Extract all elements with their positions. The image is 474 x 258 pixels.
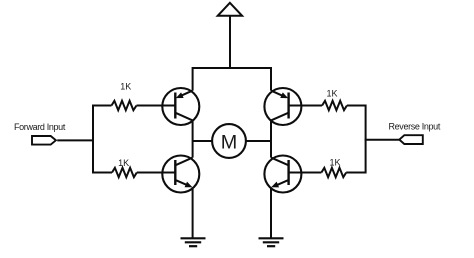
wire: motor to right leg (246, 140, 271, 142)
wire: Q4 emitter to ground (270, 187, 272, 238)
resistor R3 (1K, top-right) (322, 101, 347, 110)
svg-text:1K: 1K (118, 158, 129, 168)
wire: R1 to Q1 base (137, 105, 176, 107)
resistor R1 (1K, top-left) (112, 101, 137, 110)
transistor Q4 (NPN, bottom-right) (264, 156, 301, 193)
svg-text:1K: 1K (326, 88, 337, 98)
wire: R2 to Q2 base (137, 172, 176, 174)
svg-text:1K: 1K (329, 158, 340, 168)
wire: right node to Reverse terminal (365, 139, 400, 141)
wire: R4 to right input node (346, 172, 366, 174)
wire: Q1 collector to Q2 collector (left bridge leg, motor tap node) (192, 120, 194, 157)
resistor R2 (1K, bottom-left) (112, 168, 137, 177)
input terminal: Forward Input (32, 136, 56, 145)
V+ rail wire (192, 67, 272, 91)
wire: left node to R2 (92, 172, 112, 174)
transistor Q1 (PNP, top-left) (162, 88, 199, 125)
resistor R4 (1K, bottom-right) (321, 168, 346, 177)
wire: Q4 base to R4 (289, 172, 322, 174)
svg-text:Reverse Input: Reverse Input (389, 122, 441, 132)
input terminal: Reverse Input (399, 135, 423, 144)
transistor Q2 (NPN, bottom-left) (162, 156, 199, 193)
wire: left leg to motor (193, 140, 213, 142)
wire: left input node vertical stem (92, 105, 94, 174)
wire: Forward terminal to left input node (57, 139, 94, 141)
wire: left node to R1 (92, 105, 111, 107)
ground (left) (181, 238, 206, 246)
wire: R3 to right input node (347, 105, 367, 107)
power supply symbol (218, 3, 242, 68)
ground (right) (259, 238, 284, 246)
svg-text:M: M (221, 132, 237, 154)
wire: right input node vertical stem (365, 105, 367, 174)
svg-text:1K: 1K (120, 82, 131, 92)
transistor Q3 (PNP, top-right) (264, 88, 301, 125)
svg-text:Forward Input: Forward Input (14, 122, 66, 132)
wire: Q2 emitter to ground (192, 187, 194, 238)
wire: Q3 collector to Q4 collector (right bridge leg, motor tap node) (270, 120, 272, 157)
wire: Q3 base to R3 (289, 105, 323, 107)
motor M (212, 124, 246, 158)
